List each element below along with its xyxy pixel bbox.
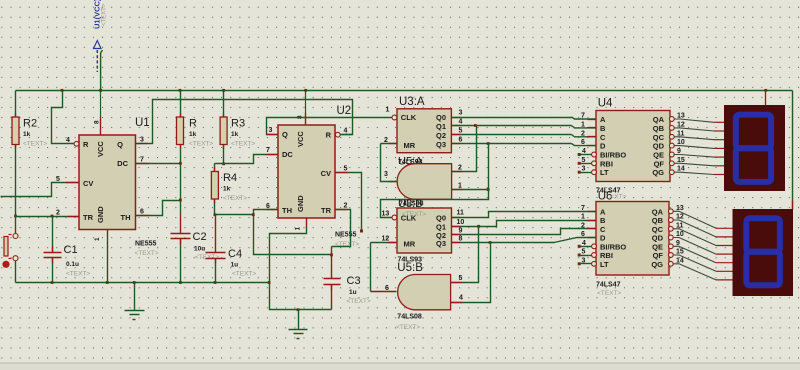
svg-text:2: 2 [344,203,348,210]
U4 pin 4 BI/RBO [592,152,597,157]
svg-text:R4: R4 [223,172,237,184]
svg-text:4: 4 [459,119,463,126]
svg-text:15: 15 [676,249,684,256]
svg-text:8: 8 [94,120,101,124]
svg-text:2: 2 [581,222,585,229]
capacitor C1 [44,252,62,254]
svg-text:QE: QE [653,151,664,160]
svg-text:1: 1 [458,183,462,190]
svg-text:U3:A: U3:A [399,96,425,108]
svg-text:Q0: Q0 [436,113,446,122]
svg-text:5: 5 [459,128,463,135]
svg-text:3: 3 [384,171,388,178]
svg-text:<TEXT>: <TEXT> [396,324,420,331]
svg-text:12: 12 [382,236,390,243]
U3:B pin 8 Q3 wire to U6 D [452,242,555,244]
wire TH2 net [215,210,279,215]
svg-text:<TEXT>: <TEXT> [135,250,159,257]
svg-text:TR: TR [83,213,94,222]
U6 pin 10 QD wire [668,235,673,240]
resistor R2 [12,117,19,145]
svg-text:LT: LT [600,168,609,177]
svg-text:9: 9 [459,228,463,235]
AND gate U5:A 74LS08 [397,164,452,200]
svg-text:NE555: NE555 [335,232,357,239]
U4 pin 5 RBI [592,161,597,166]
svg-text:<TEXT>: <TEXT> [597,290,621,297]
U4 pin 9 QE wire [669,152,674,157]
U3:A pin 2 MR [381,143,398,145]
svg-text:C3: C3 [347,275,361,287]
svg-text:Q1: Q1 [436,122,446,131]
U6 pin 15 QF wire [668,253,673,258]
svg-text:QA: QA [652,207,664,216]
U3:B pin 11 Q0 wire to U6 A [452,212,597,218]
svg-text:QC: QC [653,133,665,142]
svg-text:7: 7 [581,205,585,212]
U3:B pin 12 MR wire to U5:B output [371,242,398,244]
svg-text:C: C [600,225,606,234]
svg-text:1k: 1k [231,131,239,138]
svg-text:VCC: VCC [296,131,305,147]
capacitor C3 [331,247,333,279]
decoder U6 74LS47 body [596,202,669,276]
svg-text:5: 5 [582,249,586,256]
wire rail to display2 [792,91,794,201]
svg-text:<TEXT>: <TEXT> [23,141,47,148]
AND gate U5:B 74LS08 [398,275,451,310]
svg-text:BI/RBO: BI/RBO [600,151,626,160]
U6 pin 11 QC wire [668,226,673,231]
U4 pin 14 QG wire [669,170,674,175]
svg-text:5: 5 [582,157,586,164]
svg-text:1: 1 [295,227,302,231]
U5:A pin 3 output to U3:A MR [381,144,398,182]
svg-text:1u: 1u [231,262,239,269]
op-amp timer U2 NE555 body [278,125,335,218]
U2 pin 1 GND [306,219,308,227]
svg-text:<TEXT>: <TEXT> [231,141,255,148]
svg-text:RBI: RBI [600,159,613,168]
svg-text:3: 3 [269,127,273,134]
svg-text:2: 2 [581,130,585,137]
svg-text:CV: CV [83,179,93,188]
wire TH2 to C3 node [254,215,332,255]
svg-text:CLK: CLK [401,214,417,223]
wire C1 top [52,217,54,253]
svg-text:4: 4 [582,240,586,247]
svg-text:VCC: VCC [96,141,105,157]
U2 pin 5 CV [336,173,362,232]
svg-text:7: 7 [266,147,270,154]
svg-text:2: 2 [56,210,60,217]
resistor R4 [214,164,216,172]
svg-text:6: 6 [581,139,585,146]
svg-text:R: R [326,131,332,140]
svg-text:4: 4 [344,128,348,135]
U6 pin 13 QA wire [668,209,673,214]
svg-text:U5:B: U5:B [397,262,423,274]
U2 pin 2 TR [332,210,351,247]
svg-text:R: R [189,118,197,130]
svg-text:R3: R3 [231,118,245,130]
svg-text:U1: U1 [135,117,150,129]
svg-text:QD: QD [652,234,664,243]
svg-text:C: C [600,133,606,142]
svg-text:DC: DC [117,159,128,168]
wire R2 to switch [15,145,17,229]
svg-text:U1(VCC): U1(VCC) [93,0,102,29]
U6 pin 14 QG wire [668,261,673,266]
svg-text:<XT>: <XT> [611,194,627,201]
svg-text:5: 5 [459,275,463,282]
U6 pin 4 BI/RBO [592,244,597,249]
node TR1 junction [14,215,17,218]
svg-text:QD: QD [653,142,665,151]
svg-text:11: 11 [676,222,684,229]
wire rail to R2 [15,91,17,118]
wire DC2 net [215,155,279,164]
op-amp timer U1 NE555 body [79,135,136,230]
svg-text:D: D [600,234,606,243]
U3:A pin 1 CLK bubble [392,115,397,120]
svg-text:B: B [600,216,606,225]
resistor R3 [220,117,227,145]
svg-text:13: 13 [382,211,390,218]
7-segment display DS1 [765,91,767,106]
wire Q3 to U3:B CLK [381,144,489,218]
svg-text:7: 7 [581,113,585,120]
switch SW1 [13,234,18,239]
wire C4 bottom [215,259,217,283]
svg-text:QB: QB [652,216,664,225]
U6 pin 3 LT [592,261,597,266]
svg-text:Q3: Q3 [436,239,446,248]
svg-text:U2: U2 [337,105,352,117]
wire R3 bottom / DC2 node [223,145,225,164]
svg-text:9: 9 [676,240,680,247]
svg-text:1k: 1k [189,131,197,138]
svg-text:7: 7 [140,157,144,164]
svg-text:DC: DC [282,150,293,159]
VCC rail wire [16,90,793,92]
U4 pin 13 QA wire [669,117,674,122]
U4 pin 10 QD wire [669,143,674,148]
svg-text:3: 3 [459,110,463,117]
svg-text:13: 13 [676,205,684,212]
svg-text:10: 10 [677,139,685,146]
counter U3:A 74LS93 body [397,109,451,153]
svg-text:Q0: Q0 [436,214,446,223]
U1 pin 6 TH [136,201,181,216]
U1 pin 7 DC [136,163,181,165]
svg-text:Q3: Q3 [436,140,446,149]
svg-text:14: 14 [676,257,684,264]
svg-text:11: 11 [457,210,465,217]
ground symbol 2 [297,308,300,311]
U1 pin 8 VCC [100,91,102,117]
wire R1 bottom to C2 [180,145,182,215]
svg-text:QA: QA [653,115,665,124]
svg-text:TH: TH [121,213,131,222]
svg-text:R: R [83,140,89,149]
svg-text:A: A [600,207,606,216]
wire C1 bottom [52,258,54,283]
svg-text:11: 11 [677,130,685,137]
svg-text:QG: QG [652,168,664,177]
svg-text:74LS08: 74LS08 [399,201,424,208]
wire rail to R1 [180,91,182,118]
svg-text:<TEXT>: <TEXT> [102,3,108,26]
U2 pin 8 VCC [305,91,307,113]
svg-text:QG: QG [651,260,663,269]
U5:B pin 4 input from Q3 [451,243,491,303]
wire TR net U1 [16,216,80,218]
svg-text:BI/RBO: BI/RBO [600,242,626,251]
svg-text:13: 13 [677,113,685,120]
U3:A pin 3 Q0 wire to U4 A [452,117,572,119]
U2 pin 4 R [335,132,340,137]
svg-text:CLK: CLK [401,113,417,122]
U6 pin 12 QB wire [668,218,673,223]
counter U3:B 74LS93 body [397,208,452,253]
svg-text:<TEXT>: <TEXT> [223,195,247,202]
svg-text:3: 3 [582,257,586,264]
svg-text:3: 3 [582,166,586,173]
svg-text:1: 1 [94,237,101,241]
svg-text:6: 6 [459,137,463,144]
svg-text:QB: QB [653,124,665,133]
wire C2 bottom [180,239,182,283]
capacitor C2 [171,233,191,235]
svg-text:C4: C4 [228,248,242,260]
svg-text:1u: 1u [349,289,357,296]
7-segment display DS2 [792,201,794,210]
svg-text:Q2: Q2 [436,131,446,140]
svg-text:2: 2 [384,137,388,144]
U4 pin 3 LT [592,170,597,175]
svg-text:<TEXT>: <TEXT> [347,298,371,305]
U4 pin 11 QC wire [669,134,674,139]
pin stubs red overdraw [66,182,80,184]
svg-text:74LS08: 74LS08 [397,314,422,321]
svg-text:6: 6 [581,231,585,238]
svg-text:74LS47: 74LS47 [596,282,621,289]
svg-text:B: B [600,124,606,133]
svg-text:CV: CV [321,169,331,178]
U4 pin 15 QF wire [669,161,674,166]
svg-text:U4: U4 [598,98,613,110]
svg-text:D: D [600,142,606,151]
svg-text:4: 4 [459,295,463,302]
svg-text:12: 12 [676,214,684,221]
U5:A pin 1 input from Q3 [452,189,489,191]
svg-text:MR: MR [404,141,416,150]
wire VCC terminal to rail [101,50,103,90]
svg-text:6: 6 [140,209,144,216]
svg-text:A: A [600,115,606,124]
svg-text:10u: 10u [194,246,205,253]
svg-text:R2: R2 [23,118,37,130]
svg-text:9: 9 [677,148,681,155]
svg-text:QF: QF [654,159,665,168]
U2 pin 3 Q to U3:A CLK [267,118,392,135]
ground symbol 1 [133,281,136,284]
svg-text:0.1u: 0.1u [66,261,79,268]
svg-text:MR: MR [404,240,416,249]
U3:A pin 4 Q1 wire to U4 B [452,125,572,127]
svg-text:4: 4 [66,137,70,144]
wire R4 bottom / TH2 node [214,200,216,215]
svg-text:<TEXT>: <TEXT> [66,271,90,278]
svg-text:RBI: RBI [600,251,613,260]
svg-text:GND: GND [296,195,305,212]
svg-text:TR: TR [321,206,332,215]
svg-text:LT: LT [600,260,609,269]
svg-text:Q: Q [117,140,123,149]
svg-text:C1: C1 [64,244,78,256]
svg-text:NE555: NE555 [135,241,157,248]
svg-text:Q: Q [282,130,288,139]
U3:A pin 6 Q3 wire to U4 D [452,143,572,145]
svg-text:GND: GND [96,206,105,223]
svg-text:3: 3 [140,137,144,144]
svg-text:1: 1 [581,214,585,221]
svg-text:14: 14 [677,166,685,173]
U5:B pin 6 output to U3:B MR [371,291,397,293]
svg-text:TH: TH [282,206,292,215]
svg-text:10: 10 [457,219,465,226]
U3:B pin 9 Q2 wire to U6 C [452,229,597,235]
U3:B pin 10 Q1 wire to U6 B [452,221,597,227]
wire switch to ground rail [15,261,17,283]
U3:A pin 5 Q2 wire to U4 C [452,134,572,136]
svg-text:2: 2 [458,165,462,172]
svg-text:<TEXT>: <TEXT> [189,141,213,148]
U1 pin 1 GND [107,230,109,235]
capacitor C4 [215,215,217,253]
ground rail wire [16,282,270,284]
U6 pin 5 RBI [592,253,597,258]
U5:B pin 5 input from Q1 [451,227,479,283]
svg-text:15: 15 [677,157,685,164]
svg-text:QF: QF [653,251,664,260]
svg-text:QE: QE [652,242,663,251]
U5:A pin 2 input from Q1 [452,126,477,172]
U6 pin 9 QE wire [668,244,673,249]
U1 pin 4 R [74,141,79,146]
switch actuator dot [2,261,9,268]
U1 pin 5 CV [1,183,80,197]
U3:B pin 13 CLK bubble [392,215,397,220]
svg-text:5: 5 [56,176,60,183]
svg-text:12: 12 [677,121,685,128]
svg-text:6: 6 [385,285,389,292]
svg-text:10: 10 [676,231,684,238]
wire rail to R3 [223,91,225,118]
svg-text:4: 4 [582,148,586,155]
svg-text:5: 5 [344,166,348,173]
resistor R1 [177,117,184,145]
decoder U4 74LS47 body [596,111,670,182]
svg-text:1k: 1k [23,131,31,138]
U4 pin 12 QB wire [669,126,674,131]
svg-text:C2: C2 [193,231,207,243]
svg-text:QC: QC [652,225,664,234]
svg-text:8: 8 [459,236,463,243]
svg-text:1: 1 [386,107,390,114]
svg-text:1k: 1k [223,186,231,193]
svg-text:1: 1 [581,121,585,128]
U1 pin 3 Q [136,100,353,144]
svg-text:<TEXT>: <TEXT> [232,271,256,278]
